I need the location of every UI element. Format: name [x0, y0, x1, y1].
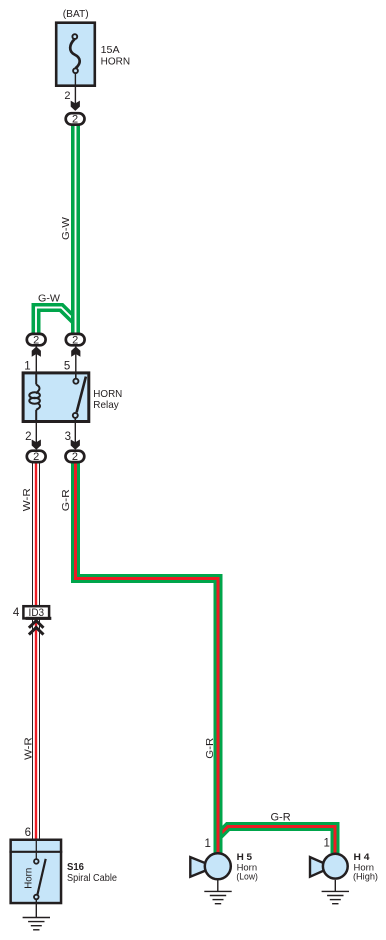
- svg-text:Spiral Cable: Spiral Cable: [67, 873, 117, 884]
- svg-text:H 4: H 4: [354, 852, 371, 863]
- svg-text:6: 6: [25, 827, 31, 839]
- svg-text:H 5: H 5: [237, 852, 253, 863]
- svg-text:1: 1: [204, 838, 210, 850]
- svg-text:2: 2: [64, 90, 70, 102]
- svg-text:ID3: ID3: [29, 607, 45, 619]
- svg-text:S16: S16: [67, 862, 84, 873]
- svg-text:5: 5: [64, 360, 70, 372]
- svg-text:HORN: HORN: [101, 55, 131, 67]
- svg-text:G-W: G-W: [60, 217, 72, 240]
- svg-text:1: 1: [323, 838, 329, 850]
- svg-text:(High): (High): [353, 871, 378, 882]
- svg-text:G-W: G-W: [38, 292, 60, 304]
- svg-text:1: 1: [24, 360, 30, 372]
- svg-text:(Low): (Low): [236, 871, 258, 882]
- svg-text:G-R: G-R: [204, 737, 216, 758]
- svg-text:Horn: Horn: [24, 868, 35, 889]
- svg-text:2: 2: [25, 431, 31, 443]
- svg-text:W-R: W-R: [21, 488, 33, 511]
- svg-text:(BAT): (BAT): [63, 8, 89, 20]
- svg-text:W-R: W-R: [22, 737, 34, 760]
- svg-text:G-R: G-R: [271, 812, 291, 824]
- svg-text:Relay: Relay: [93, 399, 119, 411]
- svg-text:3: 3: [65, 431, 71, 443]
- svg-text:4: 4: [13, 607, 20, 619]
- svg-text:G-R: G-R: [60, 489, 72, 511]
